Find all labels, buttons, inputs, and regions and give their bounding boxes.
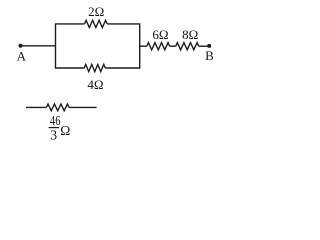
node A [19, 44, 23, 48]
node B [207, 44, 211, 48]
wire right vertical of parallel box [139, 24, 141, 68]
wire left vertical of parallel box [55, 24, 57, 68]
wire top branch left lead [55, 23, 85, 25]
svg-text:8Ω: 8Ω [182, 27, 198, 42]
wire equivalent circuit right lead [69, 106, 97, 108]
svg-text:46: 46 [50, 113, 61, 128]
wire 6 ohm to 8 ohm [170, 45, 176, 47]
svg-text:A: A [17, 48, 27, 63]
wire A to parallel box [21, 45, 56, 47]
resistor R2 4 ohm (bottom branch) [84, 64, 105, 71]
wire bottom branch left lead [55, 67, 84, 69]
wire top branch right lead [107, 23, 140, 25]
wire box to 6 ohm resistor [140, 45, 147, 47]
svg-text:6Ω: 6Ω [152, 27, 168, 42]
wire bottom branch right lead [105, 67, 140, 69]
value label fraction bar [49, 127, 59, 129]
resistor R1 2 ohm (top branch) [85, 20, 108, 27]
svg-text:B: B [205, 48, 214, 63]
svg-text:3: 3 [50, 127, 57, 142]
resistor R5 equivalent 46/3 ohm [46, 104, 69, 111]
wire equivalent circuit left lead [26, 106, 46, 108]
svg-text:4Ω: 4Ω [87, 77, 103, 92]
svg-text:Ω: Ω [60, 123, 70, 138]
svg-text:2Ω: 2Ω [88, 4, 104, 19]
resistor R3 6 ohm [147, 43, 170, 50]
resistor R4 8 ohm [176, 43, 199, 50]
wire 8 ohm to node B [199, 45, 210, 47]
